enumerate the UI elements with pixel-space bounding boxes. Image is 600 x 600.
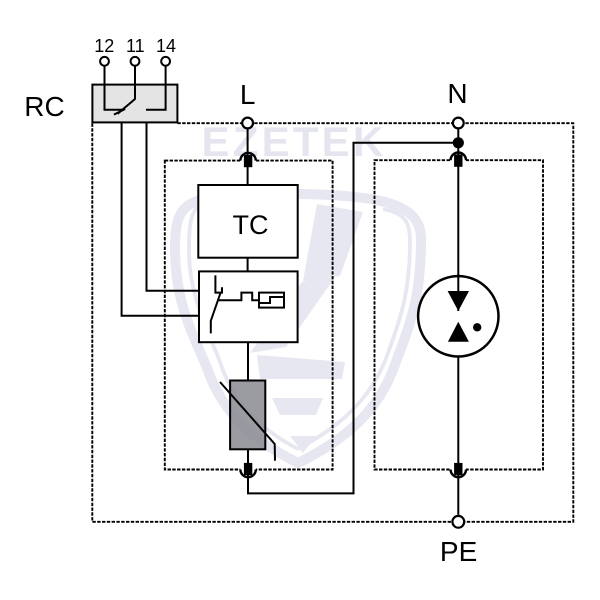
wire junction to GDT bbox=[457, 143, 459, 311]
svg-text:PE: PE bbox=[440, 536, 477, 567]
RC changeover blade bbox=[118, 99, 136, 114]
svg-text:EZETEK: EZETEK bbox=[202, 118, 387, 165]
thermal disconnector blade bbox=[211, 293, 221, 333]
junction node at N bbox=[453, 137, 464, 148]
thermal disconnector fixed contact bbox=[215, 275, 222, 292]
thermal control box TC bbox=[198, 185, 297, 258]
GDT gas dot bbox=[473, 323, 481, 331]
thermal disconnector box bbox=[199, 271, 298, 342]
watermark shield inner line bbox=[189, 203, 410, 449]
watermark chevron V bbox=[290, 436, 316, 453]
terminal circle N bbox=[453, 118, 464, 129]
watermark chevron bar bbox=[272, 398, 323, 415]
hop arc at L module entry bbox=[240, 153, 255, 472]
svg-text:L: L bbox=[240, 79, 256, 110]
GDT wire inside top bbox=[457, 274, 459, 311]
watermark Z bolt diagonal bbox=[250, 270, 340, 353]
enclosure outer dashed boundary bbox=[92, 123, 573, 522]
svg-text:12: 12 bbox=[94, 36, 114, 56]
terminal circle 12 bbox=[100, 57, 109, 66]
hop arc at varistor module exit bbox=[240, 467, 255, 477]
wire thermal disconnector to varistor bbox=[247, 342, 249, 380]
RC blade tick bbox=[114, 109, 125, 115]
GDT circle bbox=[418, 276, 498, 356]
thermal disconnector link wire bbox=[219, 293, 260, 301]
wire varistor bottom to node N bbox=[248, 143, 458, 494]
RC terminal 11 lead bbox=[134, 67, 136, 99]
varistor module dashed boundary bbox=[165, 161, 333, 470]
remote contact RC box bbox=[92, 85, 177, 123]
GDT lower electrode triangle bbox=[448, 322, 469, 342]
thermal element step bbox=[259, 297, 284, 303]
terminal circle L bbox=[242, 118, 253, 129]
wire L terminal to TC bbox=[247, 130, 249, 186]
plug terminal square at varistor module exit bbox=[244, 463, 252, 475]
wire GDT to PE terminal bbox=[457, 340, 459, 515]
plug terminal square at L module entry bbox=[244, 155, 252, 167]
GDT module dashed boundary bbox=[375, 160, 544, 469]
hop arc at GDT module exit bbox=[451, 467, 466, 477]
watermark Z bolt bottom bar bbox=[257, 355, 345, 379]
thermal element rectangle bbox=[259, 293, 284, 308]
svg-text:11: 11 bbox=[126, 36, 145, 56]
terminal circle 11 bbox=[131, 57, 140, 66]
wire N terminal to junction bbox=[457, 130, 459, 143]
plug terminal square at N module entry bbox=[454, 155, 462, 167]
varistor diagonal bbox=[220, 382, 275, 461]
varistor RU bbox=[230, 381, 265, 450]
svg-text:N: N bbox=[447, 78, 467, 109]
terminal circle PE bbox=[452, 516, 464, 528]
GDT upper electrode triangle bbox=[448, 291, 469, 311]
svg-text:RC: RC bbox=[24, 91, 64, 122]
RC terminal 14 lead bbox=[146, 67, 166, 110]
svg-text:TC: TC bbox=[233, 210, 269, 240]
plug terminal square at GDT module exit bbox=[454, 463, 462, 475]
wire RC pin14 to thermal box bbox=[147, 122, 200, 290]
RC terminal 12 lead bbox=[105, 67, 124, 110]
terminal circle 14 bbox=[161, 57, 170, 66]
watermark Z bolt top bar bbox=[303, 204, 363, 281]
hop arc at N module entry bbox=[451, 153, 466, 173]
wire RC pin12 to thermal box bbox=[122, 122, 199, 315]
wire TC to thermal disconnector bbox=[247, 258, 249, 272]
watermark shield outline bbox=[175, 194, 421, 463]
svg-text:14: 14 bbox=[156, 36, 176, 56]
